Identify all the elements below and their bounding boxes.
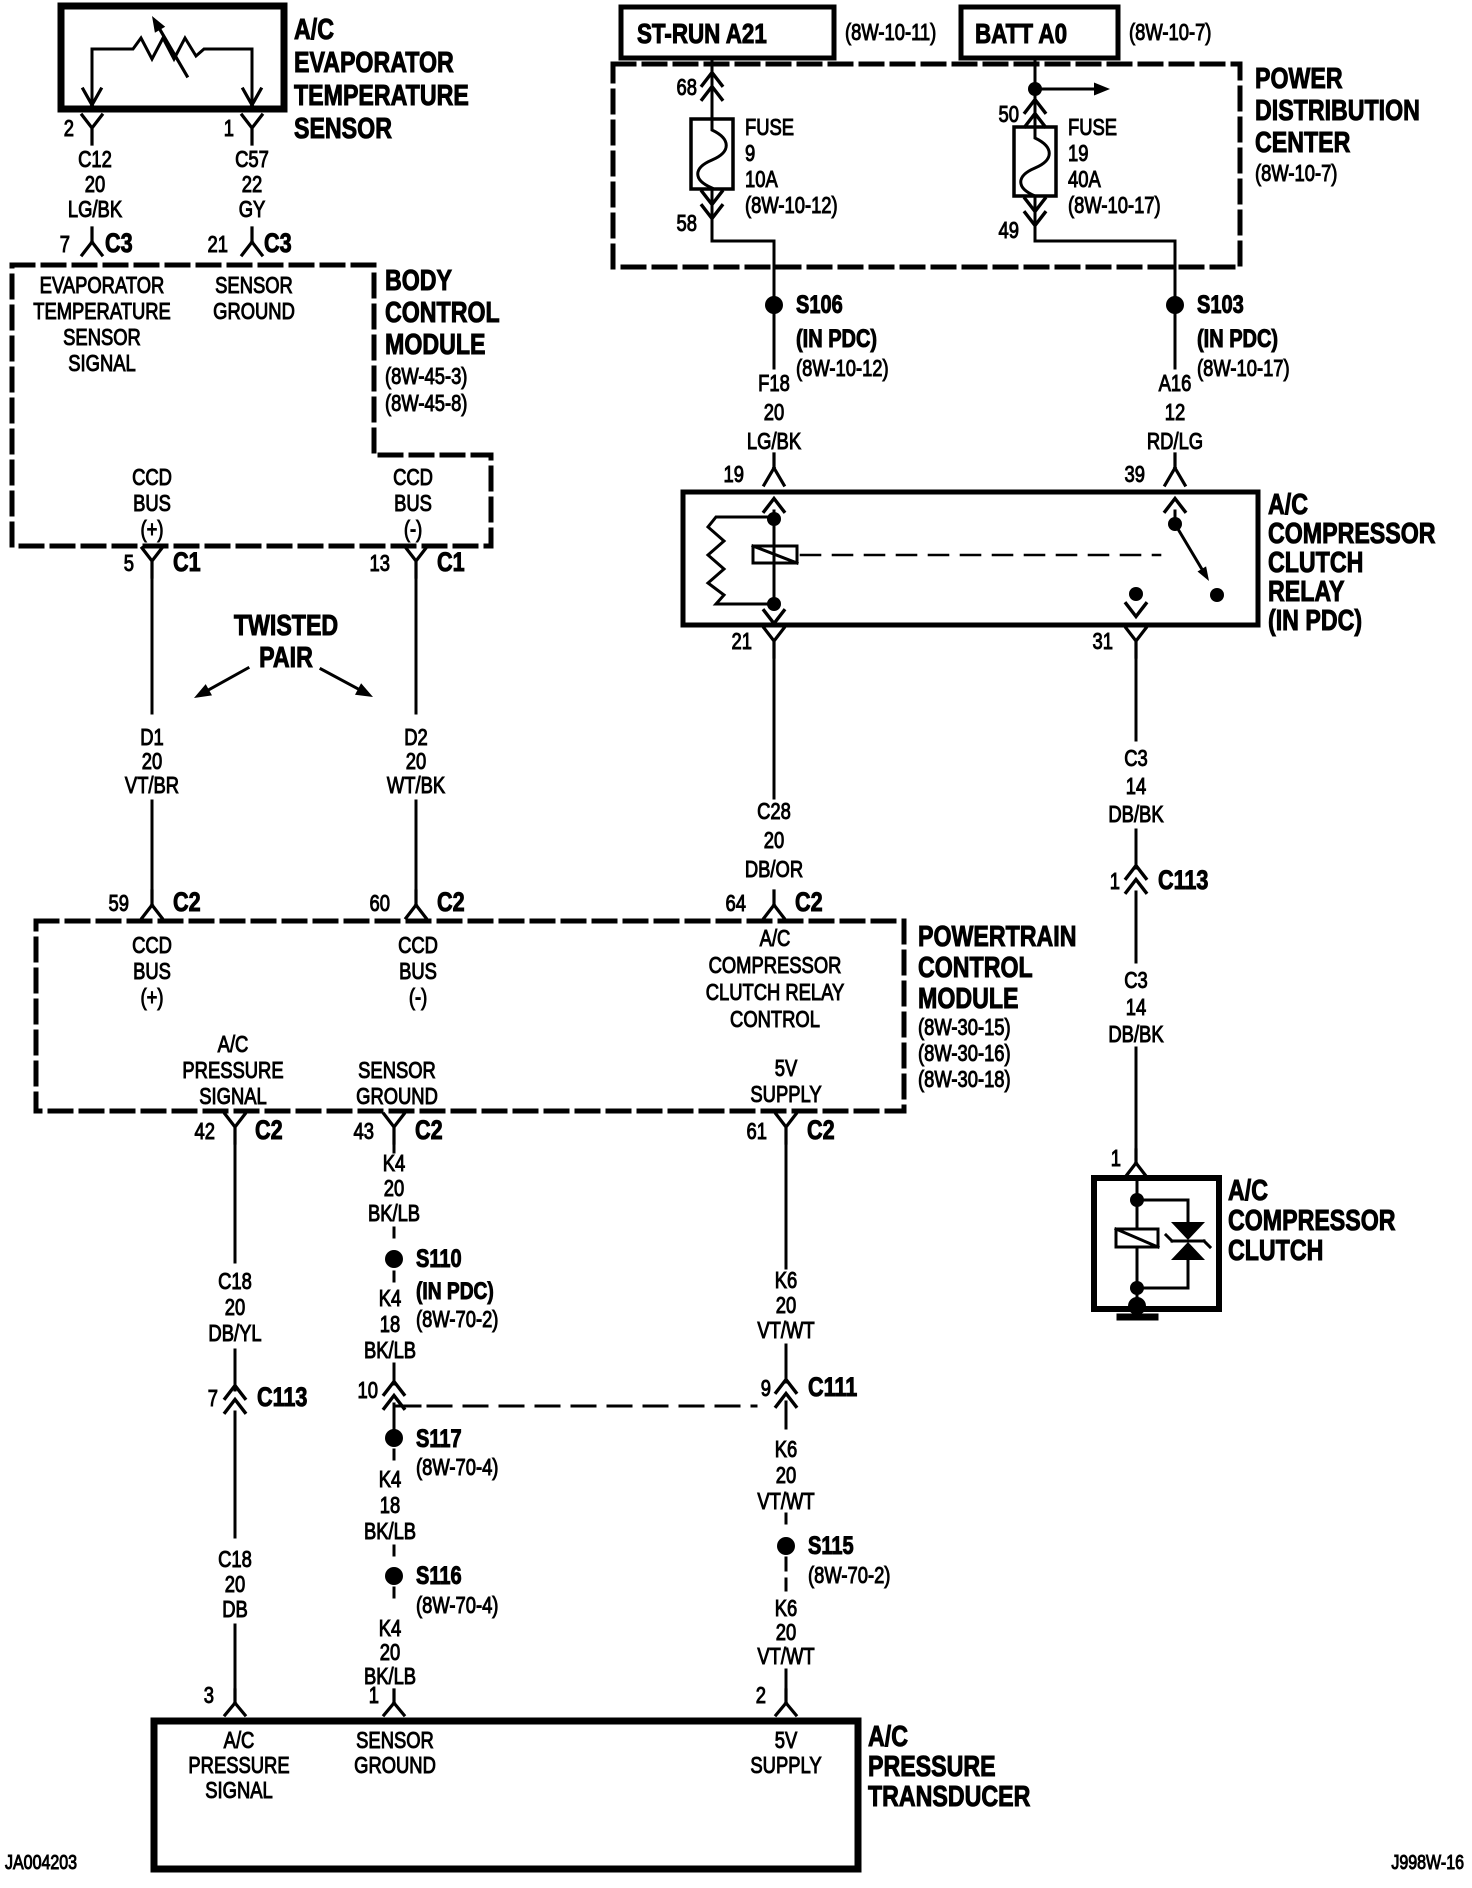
wire into C111-9: [785, 1345, 788, 1382]
svg-text:A/C: A/C: [760, 926, 791, 951]
svg-text:(8W-45-8): (8W-45-8): [385, 391, 467, 416]
svg-text:PAIR: PAIR: [259, 640, 313, 673]
svg-text:C1: C1: [437, 548, 465, 578]
svg-text:42: 42: [195, 1119, 215, 1144]
svg-text:(+): (+): [141, 517, 164, 542]
svg-text:(IN PDC): (IN PDC): [416, 1277, 494, 1305]
wire from ST-RUN into fuse 9: [711, 58, 714, 121]
svg-text:TWISTED: TWISTED: [234, 608, 338, 641]
svg-text:BUS: BUS: [133, 491, 171, 516]
svg-text:DB/BK: DB/BK: [1108, 1022, 1163, 1047]
svg-text:A/C: A/C: [224, 1728, 255, 1753]
wire label C57 22 GY: [235, 147, 269, 222]
wire label K6 20 VT/WT upper: [757, 1268, 814, 1343]
clutch feed wire: [1136, 1178, 1139, 1229]
svg-text:(8W-30-15): (8W-30-15): [918, 1015, 1011, 1040]
svg-text:(8W-70-2): (8W-70-2): [416, 1307, 498, 1332]
svg-text:S115: S115: [808, 1532, 854, 1560]
svg-text:64: 64: [726, 891, 746, 916]
svg-text:(8W-45-3): (8W-45-3): [385, 364, 467, 389]
svg-text:K6: K6: [775, 1596, 798, 1621]
svg-text:BK/LB: BK/LB: [368, 1201, 420, 1226]
dashed wire below S110: [393, 1272, 396, 1284]
svg-text:SIGNAL: SIGNAL: [68, 351, 135, 376]
connector C2 pin 60: [370, 888, 465, 918]
svg-text:DISTRIBUTION: DISTRIBUTION: [1255, 93, 1420, 126]
svg-text:(8W-10-12): (8W-10-12): [745, 193, 838, 218]
svg-text:DB: DB: [222, 1597, 248, 1622]
fuse 9 label: [745, 115, 838, 218]
relay switch pole: [1129, 587, 1143, 601]
wire label F18 20 LG/BK: [747, 371, 801, 454]
svg-text:C2: C2: [255, 1116, 283, 1146]
twisted pair note: [194, 608, 373, 698]
wire K6 from C2-61: [785, 1143, 788, 1268]
wire label C18 20 DB/YL: [208, 1269, 261, 1346]
relay switch contact NO: [1210, 588, 1224, 602]
svg-text:BK/LB: BK/LB: [364, 1338, 416, 1363]
svg-text:A/C: A/C: [868, 1719, 908, 1752]
svg-text:SIGNAL: SIGNAL: [199, 1084, 266, 1109]
svg-text:K4: K4: [379, 1467, 402, 1492]
wire label C18 20 DB: [218, 1547, 252, 1622]
svg-text:(8W-70-2): (8W-70-2): [808, 1563, 890, 1588]
BCM pin label CCD bus (+): [132, 465, 172, 542]
svg-text:20: 20: [764, 400, 784, 425]
splice S103: [1166, 291, 1290, 382]
svg-text:60: 60: [370, 891, 390, 916]
fuse 9 body: [691, 119, 733, 189]
svg-text:C2: C2: [807, 1116, 835, 1146]
svg-text:JA004203: JA004203: [5, 1851, 77, 1873]
ST-RUN A21 feed label: [637, 19, 767, 50]
svg-text:21: 21: [208, 232, 228, 257]
connector C3 pin 21: [208, 228, 292, 259]
clutch title label: [1228, 1173, 1396, 1266]
svg-text:VT/WT: VT/WT: [757, 1318, 814, 1343]
wire to transducer pin 2: [785, 1670, 788, 1692]
svg-text:22: 22: [242, 172, 262, 197]
svg-text:EVAPORATOR: EVAPORATOR: [40, 273, 165, 298]
svg-text:C113: C113: [1158, 866, 1208, 896]
svg-text:CCD: CCD: [393, 465, 433, 490]
svg-text:20: 20: [406, 749, 426, 774]
svg-text:SUPPLY: SUPPLY: [750, 1082, 821, 1107]
svg-text:C3: C3: [264, 229, 292, 259]
svg-text:19: 19: [724, 462, 744, 487]
svg-text:C2: C2: [795, 888, 823, 918]
svg-text:C1: C1: [173, 548, 201, 578]
svg-text:K6: K6: [775, 1268, 798, 1293]
svg-text:5V: 5V: [775, 1056, 798, 1081]
svg-text:(8W-10-7): (8W-10-7): [1255, 161, 1337, 186]
svg-text:RD/LG: RD/LG: [1147, 429, 1203, 454]
connector C2 pin 59: [109, 888, 201, 918]
connector C1 pin 13: [370, 548, 465, 578]
wire into S117: [393, 1406, 396, 1428]
svg-text:(IN PDC): (IN PDC): [796, 325, 877, 353]
transducer pin 1 connector: [369, 1683, 404, 1715]
svg-text:LG/BK: LG/BK: [68, 197, 122, 222]
svg-text:SENSOR: SENSOR: [294, 111, 392, 144]
svg-text:31: 31: [1093, 629, 1113, 654]
svg-text:3: 3: [204, 1683, 214, 1708]
svg-text:1: 1: [224, 116, 234, 141]
sensor title label: [294, 12, 469, 144]
BATT A0 feed label: [975, 19, 1067, 50]
svg-text:BUS: BUS: [399, 959, 437, 984]
wire C28 from relay pin 21: [773, 657, 776, 798]
wire into C113-7: [234, 1350, 237, 1390]
svg-text:S110: S110: [416, 1245, 462, 1273]
svg-text:(8W-10-17): (8W-10-17): [1197, 356, 1290, 381]
svg-text:FUSE: FUSE: [745, 115, 794, 140]
relay suppression resistor: [708, 517, 774, 604]
svg-text:BUS: BUS: [133, 959, 171, 984]
svg-text:A/C: A/C: [294, 12, 334, 45]
svg-text:18: 18: [380, 1493, 400, 1518]
svg-text:20: 20: [776, 1293, 796, 1318]
dashed wire below S116: [393, 1588, 396, 1602]
svg-text:1: 1: [369, 1683, 379, 1708]
dashed jumper to C111: [394, 1404, 756, 1406]
svg-text:S106: S106: [796, 291, 843, 319]
svg-text:F18: F18: [758, 371, 790, 396]
wire below S103: [1174, 314, 1177, 368]
relay pin 21 internal arrow: [764, 611, 784, 624]
svg-text:20: 20: [776, 1463, 796, 1488]
svg-text:9: 9: [745, 141, 755, 166]
svg-text:(8W-10-11): (8W-10-11): [845, 20, 936, 45]
transducer pin label sensor ground: [354, 1728, 436, 1778]
wire label C12 20 LG/BK: [68, 147, 122, 222]
svg-text:(8W-70-4): (8W-70-4): [416, 1455, 498, 1480]
drawing number right: [1391, 1851, 1464, 1873]
svg-text:7: 7: [60, 232, 70, 257]
svg-text:2: 2: [756, 1683, 766, 1708]
clutch ground junction: [1128, 1297, 1146, 1315]
ST-RUN A21 feed box: [621, 7, 834, 58]
PDC cavity 50 chevrons: [999, 100, 1045, 128]
svg-text:14: 14: [1126, 995, 1146, 1020]
A/C evaporator temperature sensor box: [61, 6, 284, 109]
svg-text:VT/WT: VT/WT: [757, 1489, 814, 1514]
wire label K4 20 BK/LB bottom: [364, 1616, 416, 1689]
body control module U-BCM dashed outline: [12, 265, 491, 546]
wire from BATT into fuse 19: [1034, 58, 1037, 129]
transducer title label: [868, 1719, 1030, 1812]
svg-text:BUS: BUS: [394, 491, 432, 516]
svg-text:(8W-10-12): (8W-10-12): [796, 356, 889, 381]
svg-text:C2: C2: [173, 888, 201, 918]
wire from fuse 19 to S103: [1035, 196, 1175, 296]
svg-text:SENSOR: SENSOR: [356, 1728, 434, 1753]
svg-text:S117: S117: [416, 1425, 462, 1453]
connector C113 pin 7: [208, 1383, 308, 1413]
wire CCD bus + from C1-5: [151, 577, 154, 713]
drawing number left: [5, 1851, 77, 1873]
svg-text:A/C: A/C: [218, 1032, 249, 1057]
fuse 19 label: [1068, 115, 1161, 218]
svg-text:GROUND: GROUND: [354, 1753, 436, 1778]
A/C pressure transducer box: [154, 1721, 858, 1869]
relay pin 39 internal arrow: [1165, 499, 1185, 518]
svg-text:39: 39: [1125, 462, 1145, 487]
svg-text:GY: GY: [239, 197, 266, 222]
svg-text:20: 20: [225, 1295, 245, 1320]
ground symbol: [1120, 1314, 1155, 1321]
svg-text:POWER: POWER: [1255, 61, 1343, 94]
wire label K6 20 VT/WT middle: [757, 1437, 814, 1514]
PCM pin label A/C pressure signal: [182, 1032, 283, 1109]
ST-RUN reference: [845, 20, 936, 45]
wire CCD bus - from C1-13: [415, 577, 418, 713]
svg-text:19: 19: [1068, 141, 1088, 166]
relay pin 21 connector: [732, 628, 784, 657]
svg-text:K4: K4: [383, 1151, 406, 1176]
svg-text:J998W-16: J998W-16: [1391, 1851, 1464, 1873]
svg-text:TEMPERATURE: TEMPERATURE: [33, 299, 171, 324]
svg-text:POWERTRAIN: POWERTRAIN: [918, 919, 1076, 952]
splice S106: [765, 291, 889, 382]
dashed wire below S117: [393, 1450, 396, 1462]
wire C3 from relay pin 31: [1135, 657, 1138, 740]
svg-text:(+): (+): [141, 985, 164, 1010]
wire into connector 10: [393, 1364, 396, 1384]
svg-text:43: 43: [354, 1119, 374, 1144]
svg-text:7: 7: [208, 1386, 218, 1411]
svg-text:C18: C18: [218, 1269, 252, 1294]
svg-text:COMPRESSOR: COMPRESSOR: [709, 953, 842, 978]
svg-text:(8W-30-16): (8W-30-16): [918, 1041, 1011, 1066]
relay coil: [753, 519, 797, 604]
svg-text:SENSOR: SENSOR: [358, 1058, 436, 1083]
transducer pin label 5V supply: [750, 1728, 821, 1778]
svg-text:COMPRESSOR: COMPRESSOR: [1228, 1203, 1396, 1236]
PCM pin label sensor ground: [356, 1058, 438, 1109]
transducer pin label A/C pressure signal: [188, 1728, 289, 1803]
PDC cavity 49 chevrons: [999, 199, 1045, 244]
svg-text:MODULE: MODULE: [918, 981, 1018, 1014]
svg-text:CLUTCH RELAY: CLUTCH RELAY: [706, 980, 845, 1005]
svg-text:18: 18: [380, 1312, 400, 1337]
svg-text:C111: C111: [808, 1373, 857, 1403]
svg-text:LG/BK: LG/BK: [747, 429, 801, 454]
svg-text:DB/BK: DB/BK: [1108, 802, 1163, 827]
svg-text:CLUTCH: CLUTCH: [1228, 1233, 1323, 1266]
wire label K4 20 BK/LB: [368, 1151, 420, 1226]
svg-text:CENTER: CENTER: [1255, 125, 1350, 158]
A/C compressor clutch box: [1094, 1178, 1219, 1309]
svg-text:K4: K4: [379, 1286, 402, 1311]
clutch junction bottom: [1130, 1281, 1144, 1295]
svg-text:WT/BK: WT/BK: [387, 773, 445, 798]
svg-text:C3: C3: [1124, 968, 1148, 993]
svg-text:BK/LB: BK/LB: [364, 1519, 416, 1544]
sensor internal pin arrow to pin 2: [83, 49, 101, 105]
svg-text:1: 1: [1110, 869, 1120, 894]
svg-text:61: 61: [747, 1119, 767, 1144]
wire C18 from C2-42: [234, 1143, 237, 1262]
connector C2 pin 64: [726, 888, 823, 918]
svg-text:40A: 40A: [1068, 167, 1101, 192]
svg-text:20: 20: [225, 1572, 245, 1597]
wire to transducer pin 3: [234, 1625, 237, 1692]
svg-text:10A: 10A: [745, 167, 778, 192]
relay switch armature: [1175, 524, 1209, 581]
svg-text:DB/YL: DB/YL: [208, 1321, 261, 1346]
wire to C2-60: [415, 801, 418, 891]
svg-text:49: 49: [999, 218, 1019, 243]
svg-text:CCD: CCD: [132, 933, 172, 958]
svg-text:20: 20: [380, 1640, 400, 1665]
clutch suppression diode branch: [1137, 1200, 1188, 1288]
wire into C113-1: [1135, 830, 1138, 868]
svg-text:9: 9: [761, 1376, 771, 1401]
svg-text:MODULE: MODULE: [385, 327, 485, 360]
svg-text:ST-RUN A21: ST-RUN A21: [637, 19, 767, 50]
svg-text:TEMPERATURE: TEMPERATURE: [294, 78, 469, 111]
connector C2 pin 61: [747, 1114, 835, 1146]
relay pin 31 internal arrow: [1126, 604, 1146, 617]
thermistor (variable resistor) inside sensor: [92, 16, 252, 76]
svg-text:(8W-70-4): (8W-70-4): [416, 1593, 498, 1618]
svg-text:BODY: BODY: [385, 263, 452, 296]
svg-text:(IN PDC): (IN PDC): [1197, 325, 1278, 353]
svg-text:PRESSURE: PRESSURE: [188, 1753, 289, 1778]
transducer pin 3 connector: [204, 1683, 245, 1715]
svg-text:SIGNAL: SIGNAL: [205, 1778, 272, 1803]
connector C3 pin 7: [60, 228, 133, 259]
PDC feed dot and arrow: [1028, 82, 1110, 96]
splice S110: [385, 1245, 498, 1333]
dashed wire above S110: [393, 1228, 396, 1242]
svg-text:20: 20: [764, 828, 784, 853]
splice S115: [777, 1532, 890, 1589]
svg-text:BATT A0: BATT A0: [975, 19, 1067, 50]
clutch coil: [1116, 1229, 1158, 1247]
svg-text:A16: A16: [1159, 371, 1192, 396]
svg-text:58: 58: [677, 211, 697, 236]
wire below C113-1: [1135, 892, 1138, 962]
svg-text:A/C: A/C: [1228, 1173, 1268, 1206]
wire label K4 18 BK/LB upper: [364, 1286, 416, 1363]
svg-text:20: 20: [384, 1176, 404, 1201]
BCM pin label CCD bus (-): [393, 465, 433, 542]
svg-text:20: 20: [142, 749, 162, 774]
svg-text:GROUND: GROUND: [213, 299, 295, 324]
svg-text:CONTROL: CONTROL: [730, 1007, 820, 1032]
svg-text:VT/BR: VT/BR: [125, 773, 179, 798]
PCM pin label CCD bus (-): [398, 933, 438, 1010]
svg-text:1: 1: [1111, 1146, 1121, 1171]
svg-text:(8W-30-18): (8W-30-18): [918, 1067, 1011, 1092]
connector C113 pin 1: [1110, 866, 1209, 896]
PDC cavity 58 chevrons: [677, 192, 722, 237]
svg-text:13: 13: [370, 551, 390, 576]
svg-text:5V: 5V: [775, 1728, 798, 1753]
relay coil junction top: [767, 512, 781, 526]
connector C2 pin 42: [195, 1114, 283, 1146]
BCM pin label sensor ground: [213, 273, 295, 324]
svg-text:SUPPLY: SUPPLY: [750, 1753, 821, 1778]
svg-text:SENSOR: SENSOR: [63, 325, 141, 350]
svg-text:C18: C18: [218, 1547, 252, 1572]
relay pin 39 connector: [1125, 454, 1185, 488]
PCM pin label CCD bus (+): [132, 933, 172, 1010]
relay switch fixed contact: [1168, 517, 1182, 531]
connector C2 pin 43: [354, 1114, 443, 1146]
wire to clutch pin 1: [1135, 1048, 1138, 1150]
wire K4 from C2-43: [393, 1143, 396, 1152]
relay control dashed line: [801, 554, 1160, 557]
svg-text:CCD: CCD: [132, 465, 172, 490]
svg-text:(8W-10-7): (8W-10-7): [1129, 20, 1211, 45]
svg-text:C3: C3: [105, 229, 133, 259]
svg-text:21: 21: [732, 629, 752, 654]
svg-text:K4: K4: [379, 1616, 402, 1641]
clutch coil lower wire: [1136, 1247, 1139, 1306]
dashed wire above S115: [785, 1514, 788, 1528]
wire label C28 20 DB/OR: [745, 799, 803, 882]
svg-text:FUSE: FUSE: [1068, 115, 1117, 140]
PDC title label: [1255, 61, 1420, 186]
relay pin 19 internal arrow: [764, 499, 784, 520]
svg-text:(IN PDC): (IN PDC): [1268, 603, 1362, 636]
clutch junction top: [1130, 1193, 1144, 1207]
svg-text:K6: K6: [775, 1437, 798, 1462]
fuse 19 body: [1014, 127, 1056, 196]
svg-text:59: 59: [109, 891, 129, 916]
relay pin 19 connector: [724, 454, 784, 488]
svg-text:SENSOR: SENSOR: [215, 273, 293, 298]
svg-text:20: 20: [776, 1620, 796, 1645]
svg-text:C2: C2: [415, 1116, 443, 1146]
wire label D1 20 VT/BR: [125, 725, 179, 798]
splice S117: [385, 1425, 498, 1481]
BCM title label: [385, 263, 500, 416]
svg-text:TRANSDUCER: TRANSDUCER: [868, 1779, 1030, 1812]
svg-text:5: 5: [124, 551, 134, 576]
pin 2 connector under sensor: [64, 115, 102, 144]
svg-text:20: 20: [85, 172, 105, 197]
connector C113 pin 10: [358, 1378, 404, 1408]
wire to C2-59: [151, 801, 154, 891]
svg-text:C12: C12: [78, 147, 112, 172]
relay coil junction bottom: [767, 597, 781, 611]
splice S116: [385, 1562, 498, 1619]
transducer pin 2 connector: [756, 1683, 796, 1715]
relay title label: [1268, 487, 1436, 636]
A/C compressor clutch relay box: [683, 492, 1258, 625]
PCM title label: [918, 919, 1076, 1092]
wire label D2 20 WT/BK: [387, 725, 445, 798]
connector C111 pin 9: [761, 1373, 857, 1407]
svg-text:CONTROL: CONTROL: [918, 950, 1033, 983]
svg-text:DB/OR: DB/OR: [745, 857, 803, 882]
svg-text:(-): (-): [404, 517, 422, 542]
wire below C111: [785, 1402, 788, 1428]
wire from fuse 9 to S106: [712, 189, 774, 296]
wire label C3 14 DB/BK upper: [1108, 746, 1163, 827]
svg-text:68: 68: [677, 75, 697, 100]
svg-text:EVAPORATOR: EVAPORATOR: [294, 45, 454, 78]
connector C1 pin 5: [124, 548, 201, 578]
svg-text:C57: C57: [235, 147, 269, 172]
svg-text:PRESSURE: PRESSURE: [182, 1058, 283, 1083]
clutch pin 1 connector: [1111, 1146, 1146, 1176]
wire label C3 14 DB/BK lower: [1108, 968, 1163, 1047]
